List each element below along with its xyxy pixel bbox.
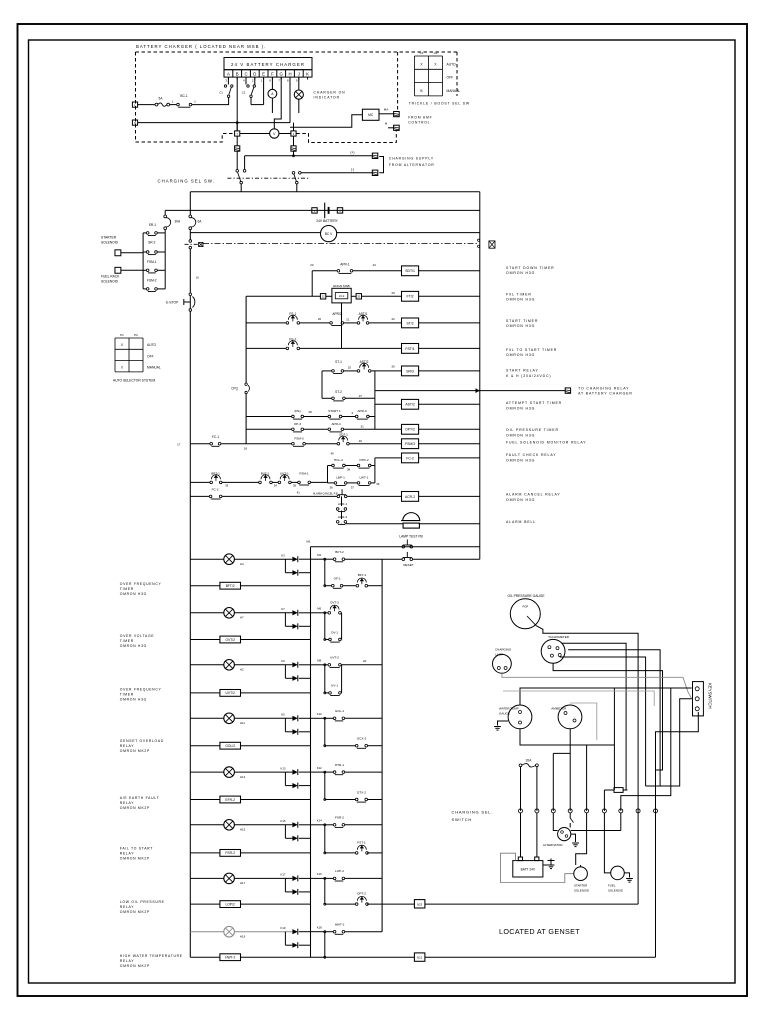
svg-text:K7: K7 (281, 607, 285, 611)
svg-text:OMRON H3G: OMRON H3G (120, 644, 147, 648)
svg-text:RELAY: RELAY (120, 801, 134, 805)
svg-text:POP: POP (522, 605, 528, 609)
svg-text:OMRON H3G: OMRON H3G (506, 298, 535, 302)
svg-text:N23: N23 (417, 902, 423, 906)
svg-text:21: 21 (346, 318, 350, 322)
svg-text:ST/2: ST/2 (406, 321, 413, 325)
svg-text:MANUAL: MANUAL (447, 89, 461, 93)
svg-text:18: 18 (244, 447, 248, 451)
svg-text:FC-2: FC-2 (406, 456, 414, 460)
svg-text:31: 31 (360, 425, 364, 429)
svg-text:OMRON MK2P: OMRON MK2P (120, 964, 150, 968)
svg-text:AT BATTERY CHARGER: AT BATTERY CHARGER (578, 392, 633, 396)
svg-text:OVT/2: OVT/2 (225, 638, 235, 642)
svg-text:ACR-1: ACR-1 (338, 502, 348, 506)
svg-text:32: 32 (359, 439, 363, 443)
svg-text:AUTO SELECTOR SYSTEM: AUTO SELECTOR SYSTEM (113, 379, 155, 383)
svg-text:TIMER: TIMER (120, 639, 134, 643)
svg-text:SWITCH: SWITCH (452, 817, 473, 822)
svg-text:ALARM CANCEL P.B.: ALARM CANCEL P.B. (313, 492, 339, 496)
svg-text:FST/1: FST/1 (405, 347, 414, 351)
svg-text:DTR-1: DTR-1 (335, 763, 344, 767)
svg-text:C1: C1 (219, 91, 223, 95)
svg-text:H11: H11 (240, 721, 245, 725)
svg-text:ALARM BELL: ALARM BELL (506, 520, 536, 524)
svg-text:20: 20 (318, 317, 322, 321)
svg-text:AUTO: AUTO (147, 343, 157, 347)
svg-text:APR-4: APR-4 (331, 422, 340, 426)
svg-text:ALARM CANCEL RELAY: ALARM CANCEL RELAY (506, 493, 561, 497)
svg-text:26: 26 (391, 365, 395, 369)
svg-text:K & H (20A/24VDC): K & H (20A/24VDC) (506, 374, 551, 378)
svg-text:40: 40 (331, 452, 335, 456)
svg-text:ENGN MSB: ENGN MSB (333, 284, 350, 288)
svg-text:K14: K14 (317, 819, 322, 823)
svg-text:SR-2: SR-2 (148, 240, 155, 244)
svg-text:STARTER: STARTER (574, 884, 587, 888)
svg-text:FST-1: FST-1 (357, 840, 366, 844)
svg-text:LOP-2: LOP-2 (335, 869, 344, 873)
svg-text:CHARGING SEL.: CHARGING SEL. (452, 810, 494, 815)
svg-text:OMRON H3G: OMRON H3G (506, 271, 535, 275)
svg-text:FS-1: FS-1 (289, 312, 296, 316)
svg-text:FSM-1: FSM-1 (147, 260, 157, 264)
svg-text:K19: K19 (281, 926, 286, 930)
svg-text:H17: H17 (240, 881, 246, 885)
svg-text:41: 41 (297, 490, 301, 494)
svg-text:24V BATTERY: 24V BATTERY (316, 219, 338, 223)
svg-text:E-STOP: E-STOP (166, 301, 179, 305)
svg-text:TRICKLE / BOOST SEL SW: TRICKLE / BOOST SEL SW (409, 102, 470, 106)
svg-text:BVT-1: BVT-1 (261, 471, 270, 475)
svg-text:K5: K5 (281, 713, 285, 717)
svg-text:OIL PRESSURE GAUGE: OIL PRESSURE GAUGE (508, 594, 546, 598)
svg-text:CHARGING SEL SW.: CHARGING SEL SW. (158, 178, 215, 183)
svg-text:A: A (227, 71, 230, 76)
svg-text:BATT 24V: BATT 24V (521, 868, 536, 872)
svg-text:FUEL SOLENOID MONITOR RELAY: FUEL SOLENOID MONITOR RELAY (506, 440, 586, 444)
svg-text:OMRON MK2P: OMRON MK2P (120, 806, 150, 810)
svg-text:ACR-4: ACR-4 (338, 515, 348, 519)
svg-text:OP-3: OP-3 (294, 422, 302, 426)
svg-text:UVT/2: UVT/2 (226, 691, 236, 695)
svg-text:FAULT CHECK RELAY: FAULT CHECK RELAY (506, 453, 556, 457)
svg-text:OMRON H3G: OMRON H3G (120, 698, 147, 702)
svg-text:OVER FREQUENCY: OVER FREQUENCY (120, 688, 162, 692)
svg-text:CHARGING: CHARGING (495, 648, 512, 652)
svg-text:K16: K16 (317, 872, 322, 876)
svg-text:BFT-1: BFT-1 (358, 573, 367, 577)
svg-text:RELAY: RELAY (120, 851, 134, 855)
svg-text:TIMER: TIMER (120, 587, 134, 591)
svg-text:UVT-1: UVT-1 (280, 471, 289, 475)
svg-text:FSM-3: FSM-3 (294, 436, 304, 440)
svg-text:OMRON H3G: OMRON H3G (506, 498, 535, 502)
svg-text:SDT-1: SDT-1 (339, 433, 348, 437)
svg-text:F: F (271, 71, 274, 76)
svg-text:OVER FREQUENCY: OVER FREQUENCY (120, 582, 162, 586)
svg-text:RELAY: RELAY (120, 905, 134, 909)
svg-text:16: 16 (196, 276, 200, 280)
svg-text:33: 33 (225, 484, 229, 488)
svg-text:MANUAL: MANUAL (147, 366, 161, 370)
svg-text:K15: K15 (281, 819, 286, 823)
svg-text:WATER TEMP: WATER TEMP (499, 706, 519, 710)
svg-text:AMMETER: AMMETER (551, 706, 567, 710)
svg-text:P2: P2 (134, 333, 138, 337)
svg-text:LOW OIL PRESSURE: LOW OIL PRESSURE (120, 900, 165, 904)
svg-text:K18: K18 (317, 926, 322, 930)
svg-text:K17: K17 (281, 873, 286, 877)
svg-text:29: 29 (391, 291, 395, 295)
svg-text:OIL PRESSURE TIMER: OIL PRESSURE TIMER (506, 428, 559, 432)
svg-text:SOLENOID: SOLENOID (101, 280, 119, 284)
svg-text:FSR-2: FSR-2 (335, 816, 344, 820)
svg-text:H15: H15 (240, 828, 246, 832)
svg-text:K9: K9 (281, 659, 285, 663)
svg-text:OFF: OFF (147, 354, 154, 358)
svg-text:OVT-2: OVT-2 (330, 600, 339, 604)
svg-text:START TIMER: START TIMER (506, 319, 538, 323)
svg-text:HIGH WATER TEMPERATURE: HIGH WATER TEMPERATURE (120, 954, 183, 958)
svg-text:C: C (244, 71, 247, 76)
svg-text:BFT/2: BFT/2 (226, 584, 235, 588)
svg-text:GOL-1: GOL-1 (335, 709, 345, 713)
svg-text:APR-3: APR-3 (357, 409, 366, 413)
svg-text:K3: K3 (281, 553, 285, 557)
svg-text:MC: MC (368, 113, 374, 117)
svg-text:OPT-2: OPT-2 (357, 892, 366, 896)
svg-text:M8: M8 (317, 659, 321, 663)
svg-text:M1: M1 (306, 540, 310, 544)
svg-text:BC-1: BC-1 (180, 94, 187, 98)
svg-text:HCL-2: HCL-2 (334, 458, 343, 462)
svg-text:RELAY: RELAY (120, 959, 134, 963)
svg-text:17: 17 (177, 442, 181, 446)
svg-text:OMRON MK2P: OMRON MK2P (120, 910, 150, 914)
svg-text:STARTER: STARTER (101, 236, 117, 240)
svg-text:OMRON H3G: OMRON H3G (506, 324, 535, 328)
svg-text:OMRON H3G: OMRON H3G (506, 433, 535, 437)
svg-text:TO CHARGING RELAY: TO CHARGING RELAY (578, 386, 629, 390)
svg-text:OMRON MK2P: OMRON MK2P (120, 749, 150, 753)
svg-text:LV-2: LV-2 (339, 294, 345, 298)
svg-text:START RELAY: START RELAY (506, 369, 539, 373)
svg-text:GOL/2: GOL/2 (225, 744, 235, 748)
svg-text:38: 38 (347, 468, 351, 472)
svg-text:CONTROL: CONTROL (408, 121, 430, 125)
svg-text:GENSET OVERLOAD: GENSET OVERLOAD (120, 739, 164, 743)
svg-text:B: B (420, 89, 422, 93)
svg-text:H: H (288, 71, 291, 76)
svg-text:FC-1: FC-1 (212, 435, 219, 439)
svg-text:OVER VOLTAGE: OVER VOLTAGE (120, 634, 155, 638)
svg-text:HWT-2: HWT-2 (335, 923, 345, 927)
svg-text:OF-1: OF-1 (334, 577, 341, 581)
svg-text:(+): (+) (350, 151, 354, 155)
svg-text:FT/2: FT/2 (407, 295, 414, 299)
svg-text:START DOWN TIMER: START DOWN TIMER (506, 266, 555, 270)
svg-text:ST-2: ST-2 (335, 390, 342, 394)
svg-text:OMRON H3G: OMRON H3G (506, 458, 535, 462)
svg-text:35: 35 (376, 482, 380, 486)
svg-text:34: 34 (274, 484, 278, 488)
svg-text:CHARGING SUPPLY: CHARGING SUPPLY (389, 156, 434, 160)
svg-text:K12: K12 (317, 766, 322, 770)
svg-text:SR-1: SR-1 (149, 223, 156, 227)
svg-text:J: J (298, 71, 300, 76)
svg-text:E: E (262, 71, 265, 76)
svg-text:ALTERNATOR: ALTERNATOR (543, 843, 564, 847)
svg-text:OFF: OFF (447, 76, 454, 80)
svg-text:LWT-1: LWT-1 (360, 475, 369, 479)
svg-text:START 1: START 1 (328, 409, 341, 413)
svg-text:LOP/2: LOP/2 (226, 902, 236, 906)
svg-text:BPT-1: BPT-1 (211, 471, 220, 475)
svg-text:LAMP TEST PB: LAMP TEST PB (399, 535, 423, 539)
svg-text:23: 23 (310, 263, 314, 267)
svg-text:FC-2: FC-2 (212, 488, 219, 492)
svg-text:UVT-2: UVT-2 (330, 656, 339, 660)
svg-text:FROM AMF: FROM AMF (408, 116, 432, 120)
svg-text:H13: H13 (240, 775, 246, 779)
svg-text:DTR-2: DTR-2 (359, 458, 368, 462)
svg-text:CP(): CP() (231, 387, 238, 391)
svg-text:TACHOMETER: TACHOMETER (548, 635, 570, 639)
svg-text:HWT-2: HWT-2 (225, 956, 235, 960)
svg-text:K: K (306, 71, 309, 76)
svg-text:BFT-2: BFT-2 (335, 550, 344, 554)
svg-text:SDT/1: SDT/1 (405, 269, 415, 273)
svg-text:UV-1: UV-1 (331, 684, 338, 688)
svg-text:20A: 20A (526, 759, 533, 763)
svg-text:MA: MA (384, 108, 389, 112)
svg-text:SOLENOID: SOLENOID (101, 241, 119, 245)
svg-text:FXL TIMER: FXL TIMER (506, 292, 532, 296)
svg-text:28: 28 (308, 410, 312, 414)
svg-text:P1: P1 (120, 333, 124, 337)
svg-text:FS-2: FS-2 (289, 338, 296, 342)
svg-text:SOLENOID: SOLENOID (574, 888, 589, 892)
svg-text:25: 25 (348, 365, 352, 369)
svg-text:BC V: BC V (325, 232, 333, 236)
svg-text:C2: C2 (434, 51, 438, 55)
svg-text:K10: K10 (317, 712, 322, 716)
svg-text:24: 24 (373, 263, 377, 267)
svg-text:K13: K13 (281, 766, 286, 770)
svg-text:27: 27 (359, 394, 363, 398)
svg-text:A/E EARTH FAULT: A/E EARTH FAULT (120, 796, 160, 800)
svg-text:OMRON H3G: OMRON H3G (506, 406, 535, 410)
svg-text:C2: C2 (242, 91, 246, 95)
svg-text:OPT/2: OPT/2 (405, 428, 415, 432)
svg-text:FAIL TO START: FAIL TO START (120, 846, 153, 850)
svg-text:FXL TO START TIMER: FXL TO START TIMER (506, 348, 557, 352)
svg-text:M6: M6 (317, 607, 321, 611)
svg-text:H19: H19 (240, 935, 246, 939)
svg-text:FSR-2: FSR-2 (225, 851, 235, 855)
svg-text:INDICATOR: INDICATOR (314, 96, 340, 100)
svg-text:TIMER: TIMER (120, 693, 134, 697)
svg-text:37: 37 (351, 485, 355, 489)
svg-text:RELAY: RELAY (120, 744, 134, 748)
svg-text:35: 35 (293, 484, 297, 488)
svg-text:KEYSWITCH: KEYSWITCH (708, 683, 713, 709)
svg-text:H4: H4 (240, 562, 244, 566)
svg-text:APR-1: APR-1 (340, 262, 350, 266)
svg-text:OMRON H3G: OMRON H3G (120, 592, 147, 596)
svg-text:B: B (236, 71, 239, 76)
svg-text:ST-1: ST-1 (335, 360, 342, 364)
svg-text:M2: M2 (317, 553, 321, 557)
svg-text:OV-1: OV-1 (331, 630, 338, 634)
svg-text:H2: H2 (240, 668, 244, 672)
svg-text:ATTEMPT START TIMER: ATTEMPT START TIMER (506, 401, 562, 405)
svg-text:FSM/3: FSM/3 (405, 442, 415, 446)
svg-text:DTX-2: DTX-2 (357, 790, 366, 794)
svg-text:FSM-2: FSM-2 (147, 279, 157, 283)
svg-text:H7: H7 (240, 616, 244, 620)
svg-text:EFR-2: EFR-2 (225, 798, 235, 802)
svg-text:FUEL: FUEL (608, 884, 616, 888)
svg-text:FSM-1: FSM-1 (299, 471, 309, 475)
svg-text:LBP-1: LBP-1 (336, 475, 345, 479)
svg-text:FROM ALTERNATOR: FROM ALTERNATOR (389, 163, 435, 167)
svg-text:CHARGER ON: CHARGER ON (314, 91, 346, 95)
svg-text:OMRON H3G: OMRON H3G (506, 353, 535, 357)
svg-text:SOLENOID: SOLENOID (608, 888, 623, 892)
svg-text:36: 36 (329, 485, 333, 489)
svg-text:ACR-2: ACR-2 (405, 495, 415, 499)
svg-text:D: D (253, 71, 256, 76)
svg-text:LOCATED AT GENSET: LOCATED AT GENSET (499, 927, 580, 936)
svg-text:22: 22 (391, 317, 395, 321)
svg-text:C1: C1 (420, 51, 424, 55)
svg-text:(-): (-) (351, 168, 354, 172)
svg-text:FUEL RACK: FUEL RACK (101, 275, 120, 279)
svg-text:30A: 30A (175, 219, 182, 223)
svg-text:H2: H2 (363, 659, 367, 663)
svg-text:GCX-2: GCX-2 (357, 737, 367, 741)
svg-text:AST/2: AST/2 (405, 403, 415, 407)
svg-text:BATTERY CHARGER ( LOCATED NEAR: BATTERY CHARGER ( LOCATED NEAR MSB ). (136, 44, 266, 49)
svg-text:SR/3: SR/3 (406, 369, 414, 373)
svg-text:AST/1: AST/1 (359, 312, 368, 316)
svg-text:24 V BATTERY CHARGER: 24 V BATTERY CHARGER (231, 62, 305, 67)
svg-text:APR/2: APR/2 (332, 312, 341, 316)
svg-text:N21: N21 (417, 956, 423, 960)
svg-text:AUTO: AUTO (447, 62, 457, 66)
svg-text:AST/2: AST/2 (360, 360, 369, 364)
svg-text:OMRON MK2P: OMRON MK2P (120, 856, 150, 860)
svg-text:N: N (134, 121, 136, 125)
svg-text:RESET: RESET (403, 563, 413, 567)
svg-text:(PE): (PE) (294, 409, 300, 413)
